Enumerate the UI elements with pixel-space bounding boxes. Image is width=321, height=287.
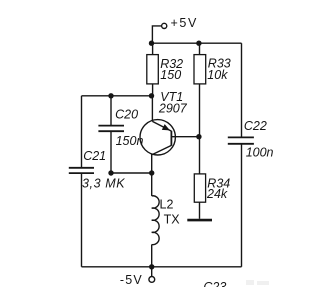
svg-text:C23: C23 xyxy=(203,280,226,287)
svg-text:150n: 150n xyxy=(116,134,144,148)
svg-text:C22: C22 xyxy=(244,119,267,133)
svg-text:TX: TX xyxy=(164,212,181,226)
svg-text:C20: C20 xyxy=(115,108,138,122)
svg-text:C21: C21 xyxy=(83,149,106,163)
svg-text:-5V: -5V xyxy=(120,273,143,287)
svg-text:2907: 2907 xyxy=(158,102,188,116)
svg-text:24k: 24k xyxy=(206,187,228,201)
svg-text:150: 150 xyxy=(160,68,181,82)
svg-text:100n: 100n xyxy=(246,146,274,160)
svg-text:L2: L2 xyxy=(160,198,174,212)
svg-text:3,3 MK: 3,3 MK xyxy=(82,176,125,190)
svg-text:+5V: +5V xyxy=(171,16,198,30)
svg-text:10k: 10k xyxy=(207,68,228,82)
